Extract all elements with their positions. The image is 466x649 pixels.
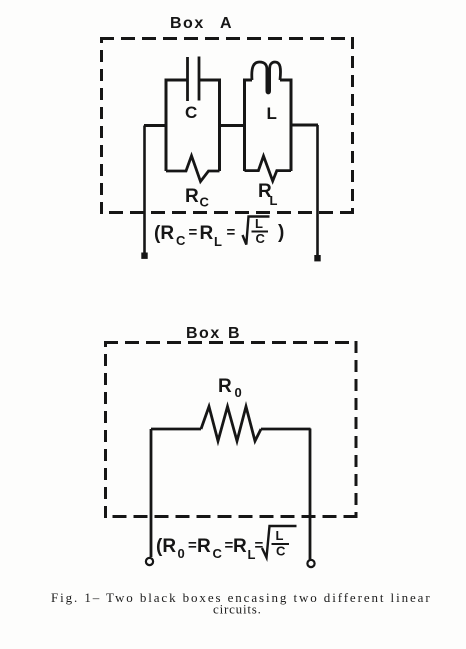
svg-text:R: R — [218, 376, 232, 397]
terminal (box B, left, open circle) — [146, 558, 153, 565]
wire: box B left terminal lead — [150, 429, 153, 557]
svg-text:=: = — [255, 537, 264, 554]
svg-text:R: R — [197, 536, 211, 557]
terminal (box A, right) — [314, 255, 320, 261]
svg-text:L: L — [267, 104, 277, 123]
svg-text:Box: Box — [186, 325, 221, 342]
svg-text:C: C — [276, 544, 286, 559]
radical sign of box B formula — [262, 526, 297, 558]
wire: left lead from terminal to C-branch — [144, 124, 166, 127]
formula for box A: (RC = RL = sqrt(L/C)) — [154, 216, 284, 249]
capacitor C plates — [188, 57, 200, 102]
box A enclosure (dashed) — [100, 37, 354, 214]
svg-text:R: R — [233, 536, 247, 557]
svg-text:R: R — [200, 223, 214, 244]
inductor hairpin darkening — [266, 80, 270, 92]
svg-text:C: C — [185, 103, 197, 122]
wire: resistor R0 to right lead — [261, 428, 311, 431]
terminal (box A, left) — [141, 253, 147, 259]
svg-text:C: C — [256, 231, 266, 246]
inductor L (two humps with centre hairpin) — [252, 62, 281, 93]
svg-text:R: R — [185, 186, 199, 207]
svg-text:L: L — [276, 528, 284, 543]
svg-text:L: L — [255, 216, 263, 231]
svg-text:C: C — [200, 195, 210, 210]
resistor RC (zigzag in bottom edge of C-branch) — [166, 156, 220, 182]
svg-text:=: = — [188, 537, 197, 554]
svg-text:L: L — [270, 193, 278, 208]
terminal (box B, right, open circle) — [307, 560, 314, 567]
wire: L-branch to right lead — [291, 124, 318, 127]
svg-text:B: B — [228, 325, 240, 342]
radical sign of box A formula — [243, 217, 270, 245]
svg-text:L: L — [214, 234, 222, 249]
resistor R0 (zigzag) — [201, 407, 261, 442]
svg-text:0: 0 — [178, 546, 185, 561]
svg-text:A: A — [220, 15, 232, 32]
svg-text:): ) — [278, 222, 284, 243]
wire: right terminal lead (vertical) — [316, 125, 319, 257]
wire: between C-branch and L-branch — [220, 124, 245, 127]
svg-text:C: C — [176, 233, 186, 248]
wire: left segment to resistor R0 — [151, 428, 201, 431]
wire: box B right terminal lead — [309, 429, 312, 561]
formula for box B: (R0 = RC = RL = sqrt(L/C) — [156, 528, 286, 562]
box B enclosure (dashed) — [104, 341, 358, 518]
L-branch loop (left/right/top edges) — [245, 80, 292, 171]
resistor RL (zigzag in bottom edge of L-branch) — [245, 156, 292, 181]
svg-text:C: C — [213, 546, 223, 561]
svg-text:=: = — [227, 224, 236, 241]
svg-text:Box: Box — [170, 15, 205, 32]
C-branch loop (left/right/top edges) — [166, 80, 220, 171]
wire: left terminal lead (vertical) — [143, 126, 146, 256]
svg-text:(R: (R — [156, 536, 176, 557]
svg-text:=: = — [189, 224, 198, 241]
svg-text:(R: (R — [154, 223, 174, 244]
svg-text:circuits.: circuits. — [213, 602, 262, 617]
svg-text:0: 0 — [235, 385, 242, 400]
